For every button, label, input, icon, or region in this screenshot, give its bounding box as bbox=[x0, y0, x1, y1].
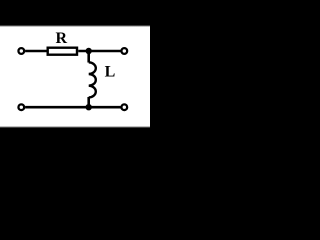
svg-text:R: R bbox=[56, 30, 68, 47]
svg-text:L: L bbox=[105, 64, 116, 81]
